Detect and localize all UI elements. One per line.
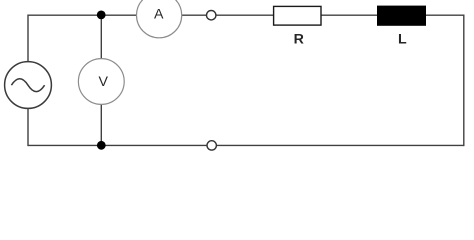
svg-text:A: A [154,7,164,23]
AC source V1 circle [5,62,52,109]
junction node top [97,11,106,20]
svg-text:L: L [398,31,407,47]
inductor L body [378,6,426,25]
resistor R body [274,6,321,25]
wire left vertical upper segment [27,15,29,62]
wire resistor to inductor [321,14,377,16]
junction node bottom [97,141,106,150]
wire right vertical segment [463,15,465,147]
wire top-left horizontal segment [28,14,137,16]
wire voltmeter bottom lead [100,104,102,145]
svg-text:R: R [294,31,304,47]
terminal T1 top open circle [207,11,216,20]
wire voltmeter top lead [100,15,102,59]
wire left vertical lower segment [27,108,29,146]
wire bottom-left horizontal segment [28,144,207,146]
svg-text:V: V [98,74,108,90]
voltmeter U2 circle [78,59,124,105]
AC source V1 sine wave [11,79,44,92]
wire ammeter right lead [182,14,207,16]
ammeter U1 circle [137,0,182,38]
terminal T2 bottom open circle [207,141,216,150]
wire inductor to top-right corner [426,14,464,16]
wire bottom-right horizontal segment [217,144,464,146]
wire terminal T1 to resistor [216,14,273,16]
